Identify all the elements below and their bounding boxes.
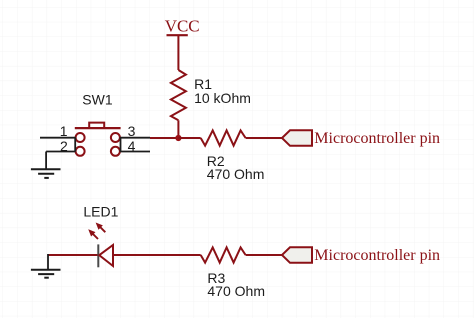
power VCC [165,17,200,36]
switch SW1 side bars [75,138,120,152]
svg-text:470 Ohm: 470 Ohm [207,166,265,182]
wire VCC to R1 [177,35,179,70]
svg-text:3: 3 [128,123,136,139]
LED LED1 triangle [99,245,113,266]
svg-text:VCC: VCC [165,17,200,36]
connector Microcontroller pin (bottom) [282,247,440,264]
resistor R3 [201,247,246,262]
wire LED to R3 [113,254,201,256]
ground GND2 [31,270,61,278]
svg-text:2: 2 [60,138,68,154]
ground GND1 [31,169,61,178]
pin 1 lead [40,137,76,139]
resistor R2 [201,130,246,145]
svg-text:Microcontroller pin: Microcontroller pin [314,247,440,264]
LED light arrows [89,224,105,239]
svg-text:4: 4 [128,138,136,154]
svg-text:470 Ohm: 470 Ohm [207,283,265,299]
wire ground to LED [48,254,98,256]
LED LED1 cathode bar [97,244,99,267]
svg-text:SW1: SW1 [82,92,113,108]
svg-text:Microcontroller pin: Microcontroller pin [314,130,440,147]
pin 4 lead [120,151,150,153]
pin 2 lead [46,151,76,153]
connector Microcontroller pin (top) [282,130,440,147]
svg-text:10 kOhm: 10 kOhm [194,90,251,106]
wire pin2 to ground [45,152,47,170]
switch SW1 actuator [75,123,121,129]
wire LED row to ground [47,254,49,269]
svg-text:LED1: LED1 [83,204,118,220]
pin 3 lead [120,137,150,139]
svg-text:1: 1 [60,123,68,139]
junction node [175,135,181,141]
switch SW1 contact circles [76,133,120,156]
wire pin3 to junction [150,137,178,139]
resistor R1 [171,70,186,120]
wire junction to R2 [178,137,200,139]
wire R2 to connector [246,137,282,139]
wire R3 to connector [246,254,282,256]
wire R1 to junction [177,120,179,138]
